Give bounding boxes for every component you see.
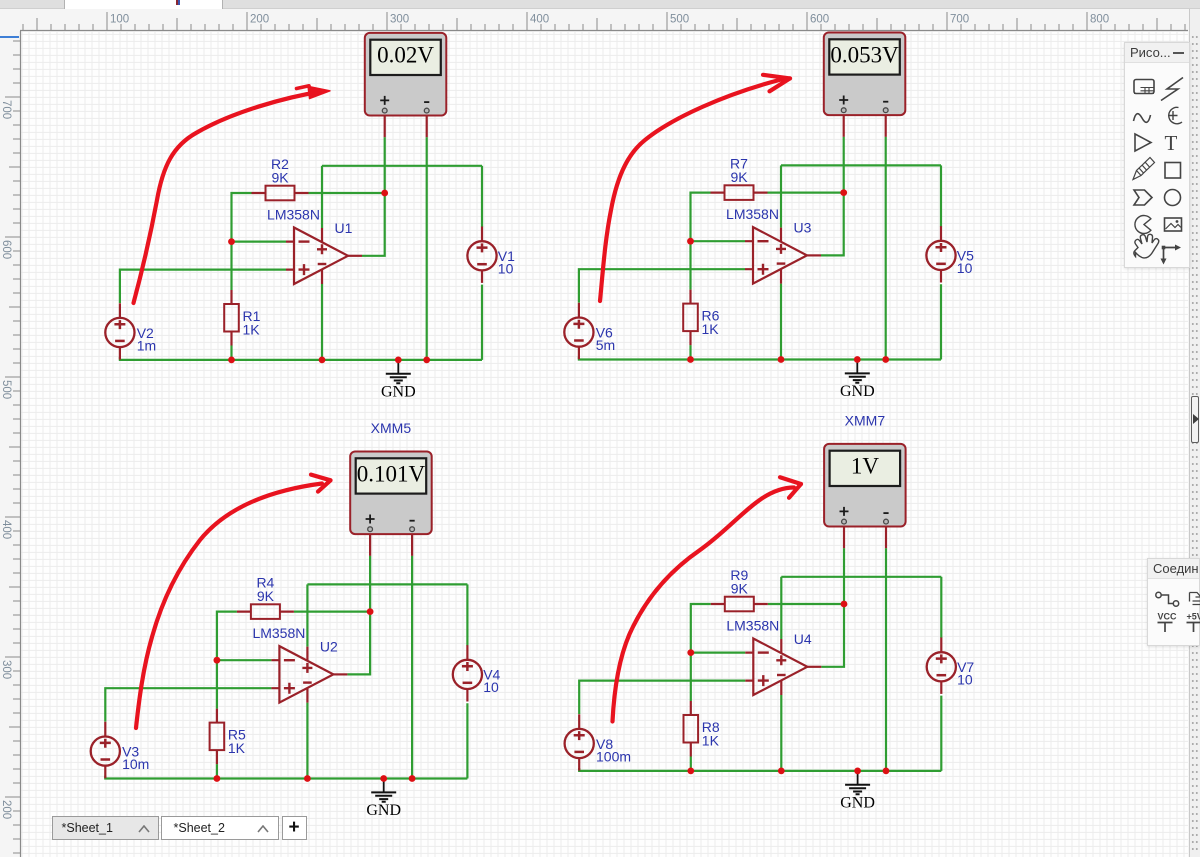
op-amp U2 LM358N [271, 646, 347, 703]
wire positive supply rail [781, 164, 941, 166]
node V- supply junction [304, 775, 311, 782]
svg-text:LM358N: LM358N [252, 625, 305, 641]
svg-text:LM358N: LM358N [726, 618, 779, 634]
wire R6 bottom to ground rail [689, 345, 691, 359]
svg-text:0.02V: 0.02V [377, 43, 434, 68]
multimeter + pin [369, 534, 371, 556]
sheet tab 1 [52, 816, 159, 840]
add sheet button [282, 816, 307, 840]
node meter- junction [882, 356, 889, 363]
wire feedback R7 right to output node [768, 192, 844, 194]
multimeter XMM1 [365, 33, 447, 116]
wire op-amp V- pin to ground rail [780, 695, 782, 771]
svg-text:0.101V: 0.101V [357, 461, 426, 486]
top ruler background [0, 9, 1188, 33]
resistor R7 [711, 185, 768, 200]
wire V2 to non-inverting input [120, 270, 286, 303]
voltage source V2 [105, 303, 134, 359]
wire positive supply rail [781, 576, 941, 578]
wire op-amp V+ pin to rail [780, 577, 782, 639]
node ground junction [380, 775, 387, 782]
voltage source V8 [565, 714, 594, 770]
sheet tab 2 [161, 816, 279, 840]
ground GND [366, 779, 401, 820]
svg-text:GND: GND [840, 795, 875, 812]
svg-text:9K: 9K [271, 170, 289, 186]
svg-text:9K: 9K [730, 169, 748, 185]
svg-text:+5V: +5V [1187, 612, 1200, 622]
node output/feedback junction [841, 601, 848, 608]
svg-text:10: 10 [483, 679, 499, 695]
svg-text:1K: 1K [702, 321, 720, 337]
svg-text:XMM5: XMM5 [371, 420, 412, 436]
wire V5 to supply rail [940, 165, 942, 226]
wire V5 to ground rail [940, 284, 942, 359]
wire ground rail [105, 776, 467, 779]
svg-text:1m: 1m [137, 337, 156, 353]
resistor R5 [210, 709, 225, 765]
node output/feedback junction [840, 189, 847, 196]
wire meter- to ground rail [885, 137, 887, 360]
voltage source V5 [926, 226, 955, 282]
node ground junction [854, 768, 861, 775]
ground GND [840, 771, 875, 812]
drawing tools palette [1124, 42, 1190, 268]
svg-text:GND: GND [381, 384, 416, 401]
svg-text:LM358N: LM358N [726, 206, 779, 222]
node meter- junction [883, 768, 890, 775]
wire meter- to ground rail [426, 137, 428, 360]
wire V6 to non-inverting input [579, 269, 745, 302]
svg-text:10m: 10m [122, 756, 149, 772]
left ruler background [0, 32, 21, 857]
wire V7 to ground rail [940, 696, 942, 771]
wire meter+ to op-amp output [821, 137, 844, 256]
wire op-amp V+ pin to rail [306, 584, 308, 646]
resistor R1 [224, 290, 239, 346]
multimeter - pin [885, 115, 887, 137]
multimeter + pin [384, 116, 386, 138]
wire op-amp V- pin to ground rail [321, 284, 323, 360]
top application strip [0, 0, 1200, 9]
node inverting input junction [228, 238, 235, 245]
ground GND [840, 360, 875, 401]
node inverting input junction [687, 649, 694, 656]
node inverting input junction [214, 657, 221, 664]
svg-text:10: 10 [957, 672, 973, 688]
wire R2 left to inverting input [232, 193, 252, 290]
wire op-amp V- pin to ground rail [780, 284, 782, 360]
voltage source V1 [467, 227, 496, 283]
resistor R4 [237, 604, 294, 619]
multimeter + pin [843, 527, 845, 549]
wire op-amp V+ pin to rail [780, 165, 782, 227]
resistor R8 [684, 701, 699, 757]
wire ground rail [579, 768, 941, 771]
wire positive supply rail [322, 165, 482, 167]
svg-text:10: 10 [957, 260, 973, 276]
annotation red arrow to XMM5 (bottom-left) [136, 475, 331, 728]
wire ground rail [579, 357, 941, 360]
op-amp U1 LM358N [286, 228, 362, 285]
multimeter + pin [843, 115, 845, 137]
svg-text:9K: 9K [731, 581, 749, 597]
svg-text:0.053V: 0.053V [830, 42, 899, 67]
svg-text:XMM7: XMM7 [845, 412, 886, 428]
wire inverting input [691, 651, 746, 653]
op-amp U4 LM358N [745, 639, 821, 696]
node inverting input junction [687, 238, 694, 245]
wire feedback R2 right to output node [309, 192, 385, 194]
voltage source V4 [453, 645, 482, 701]
left ruler blue indicator [0, 36, 19, 38]
node ground junction [854, 356, 861, 363]
wire R9 left to inverting input [691, 604, 711, 701]
wire meter- to ground rail [411, 556, 413, 779]
wire V4 to ground rail [466, 703, 468, 778]
svg-text:LM358N: LM358N [267, 207, 320, 223]
node R5 ground junction [214, 775, 221, 782]
wire op-amp V+ pin to rail [321, 166, 323, 228]
node V- supply junction [319, 357, 326, 364]
svg-text:9K: 9K [257, 588, 275, 604]
node output/feedback junction [367, 608, 374, 615]
svg-text:U3: U3 [794, 220, 812, 236]
svg-text:1K: 1K [243, 322, 261, 338]
wire inverting input [232, 241, 287, 243]
wire inverting input [691, 240, 746, 242]
wire V8 to non-inverting input [579, 681, 745, 714]
wire inverting input [217, 659, 272, 661]
svg-text:100m: 100m [596, 748, 631, 764]
wire V1 to ground rail [481, 285, 483, 360]
right splitter strip [1189, 9, 1200, 857]
node ground junction [395, 357, 402, 364]
node output/feedback junction [381, 190, 388, 197]
node R8 ground junction [687, 768, 694, 775]
svg-text:10: 10 [498, 261, 514, 277]
multimeter XMM5 [350, 452, 432, 535]
wire feedback R4 right to output node [294, 610, 370, 612]
ground GND [381, 360, 416, 401]
node meter- junction [423, 357, 430, 364]
multimeter - pin [885, 527, 887, 549]
wire meter+ to op-amp output [821, 548, 844, 667]
svg-text:GND: GND [840, 383, 875, 400]
svg-text:1K: 1K [702, 733, 720, 749]
wire meter+ to op-amp output [347, 556, 370, 675]
annotation red arrow to XMM7 (bottom-right) [613, 477, 802, 721]
svg-text:VCC: VCC [1158, 612, 1178, 622]
wire R1 bottom to ground rail [230, 346, 232, 360]
voltage source V6 [564, 303, 593, 359]
wire R4 left to inverting input [217, 612, 237, 709]
resistor R6 [683, 290, 698, 346]
resistor R9 [711, 597, 768, 612]
svg-text:1V: 1V [851, 454, 880, 479]
svg-text:U1: U1 [335, 220, 353, 236]
wire op-amp V- pin to ground rail [306, 703, 308, 779]
op-amp U3 LM358N [745, 227, 821, 284]
svg-text:U2: U2 [320, 639, 338, 655]
wire ground rail [120, 357, 482, 360]
node R1 ground junction [228, 357, 235, 364]
svg-text:5m: 5m [596, 337, 615, 353]
white toolbar fragment [64, 0, 223, 9]
annotation red arrow to XMM (top-right) [600, 75, 790, 301]
wire positive supply rail [307, 583, 467, 585]
wire R7 left to inverting input [691, 193, 711, 290]
svg-text:U4: U4 [794, 631, 812, 647]
svg-text:1K: 1K [228, 740, 246, 756]
svg-text:GND: GND [366, 802, 401, 819]
wire R5 bottom to ground rail [216, 764, 218, 778]
ruler corner [0, 9, 21, 33]
resistor R2 [252, 186, 309, 201]
multimeter - pin [411, 534, 413, 556]
multimeter - pin [426, 116, 428, 138]
node R6 ground junction [687, 356, 694, 363]
multimeter XMM7 [824, 444, 906, 527]
toolbar cursor mark [176, 0, 178, 5]
wire R8 bottom to ground rail [690, 757, 692, 771]
wire feedback R9 right to output node [768, 603, 844, 605]
wire meter+ to op-amp output [362, 137, 385, 256]
wire V4 to supply rail [466, 584, 468, 645]
svg-text:T: T [1165, 131, 1178, 155]
connectors palette [1147, 558, 1200, 646]
node V- supply junction [778, 356, 785, 363]
wire V7 to supply rail [940, 577, 942, 638]
node V- supply junction [778, 768, 785, 775]
node meter- junction [409, 775, 416, 782]
wire V3 to non-inverting input [105, 688, 271, 721]
wire meter- to ground rail [885, 548, 887, 771]
wire V1 to supply rail [481, 166, 483, 227]
voltage source V3 [91, 722, 120, 778]
annotation red arrow to XMM (top-left) [134, 86, 331, 303]
splitter handle [1191, 396, 1200, 443]
multimeter XMM3 [824, 33, 906, 116]
voltage source V7 [927, 638, 956, 694]
